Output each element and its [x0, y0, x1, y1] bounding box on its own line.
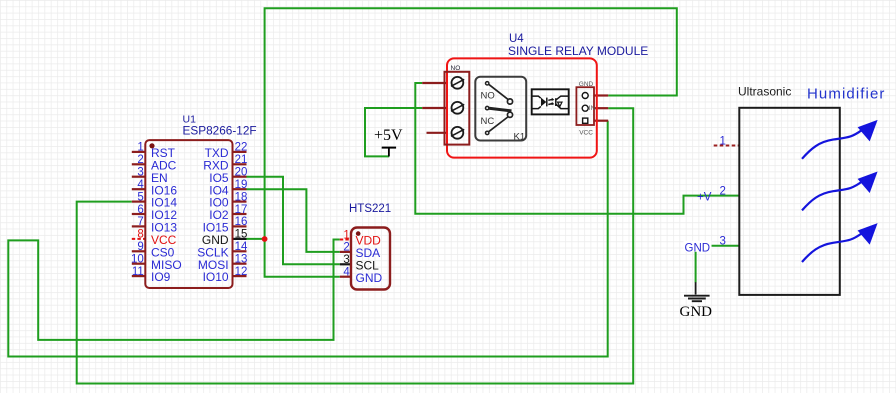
svg-text:SINGLE RELAY MODULE: SINGLE RELAY MODULE	[508, 44, 648, 58]
svg-text:2: 2	[137, 154, 143, 166]
svg-text:VCC: VCC	[579, 130, 593, 137]
svg-text:12: 12	[235, 266, 248, 278]
svg-text:K1: K1	[514, 132, 526, 143]
svg-text:3: 3	[137, 167, 143, 179]
svg-text:21: 21	[235, 154, 248, 166]
svg-text:22: 22	[235, 142, 248, 154]
svg-text:4: 4	[137, 179, 144, 191]
svg-text:1: 1	[137, 142, 143, 154]
svg-text:9: 9	[137, 241, 143, 253]
svg-text:1: 1	[720, 135, 726, 147]
svg-text:19: 19	[235, 179, 248, 191]
svg-text:14: 14	[235, 241, 248, 253]
svg-text:GND: GND	[356, 271, 383, 285]
svg-text:Humidifier: Humidifier	[807, 85, 886, 102]
svg-text:11: 11	[132, 266, 144, 278]
svg-text:2: 2	[720, 185, 726, 197]
svg-text:1: 1	[343, 229, 349, 241]
svg-text:16: 16	[235, 216, 248, 228]
svg-text:3: 3	[343, 254, 349, 266]
svg-text:13: 13	[235, 254, 248, 266]
svg-text:+5V: +5V	[374, 127, 403, 144]
svg-text:3: 3	[720, 236, 726, 248]
svg-text:+V: +V	[697, 191, 712, 203]
svg-text:NO: NO	[451, 65, 461, 72]
svg-text:5: 5	[137, 191, 143, 203]
svg-text:4: 4	[343, 267, 350, 279]
svg-text:GND: GND	[680, 304, 713, 320]
svg-text:GND: GND	[579, 81, 594, 88]
svg-text:15: 15	[235, 229, 248, 241]
svg-text:6: 6	[137, 204, 143, 216]
svg-text:IO9: IO9	[151, 270, 171, 284]
svg-text:IN: IN	[589, 105, 596, 112]
svg-text:20: 20	[235, 167, 248, 179]
svg-text:ESP8266-12F: ESP8266-12F	[183, 124, 257, 138]
svg-text:NC: NC	[481, 116, 495, 127]
svg-text:10: 10	[131, 254, 144, 266]
svg-text:18: 18	[235, 191, 248, 203]
svg-text:17: 17	[235, 204, 248, 216]
svg-text:HTS221: HTS221	[349, 203, 391, 215]
svg-text:2: 2	[343, 242, 349, 254]
svg-text:8: 8	[137, 229, 143, 241]
svg-text:GND: GND	[685, 242, 711, 254]
svg-text:IO10: IO10	[203, 270, 229, 284]
svg-text:7: 7	[137, 216, 143, 228]
svg-text:NO: NO	[481, 91, 495, 102]
svg-text:Ultrasonic: Ultrasonic	[738, 84, 791, 98]
